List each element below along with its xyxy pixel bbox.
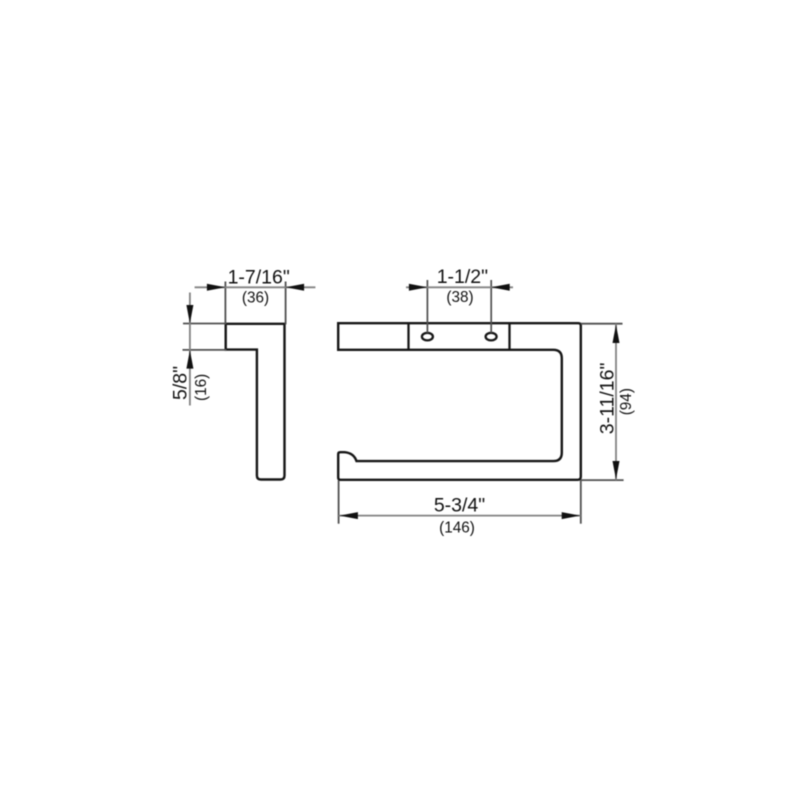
dim D3 arrow left	[409, 284, 428, 291]
svg-text:(146): (146)	[439, 520, 475, 537]
dim D2 arrow up	[186, 350, 193, 369]
dim D5 arrow right	[562, 512, 581, 519]
svg-text:(38): (38)	[446, 289, 473, 306]
right view: screw hole right	[486, 333, 497, 341]
dim D3 ext line right	[490, 280, 492, 333]
dim D1 arrow right	[286, 284, 305, 291]
svg-text:1-1/2": 1-1/2"	[437, 266, 488, 288]
dim D1 ext line right	[285, 282, 287, 325]
dim D4 ext line bottom	[581, 479, 624, 481]
right view: mounting plate divider right	[508, 323, 510, 350]
dim D5 ext line right	[580, 481, 582, 524]
svg-text:1-7/16": 1-7/16"	[228, 267, 290, 289]
dim D4 arrow down	[613, 461, 620, 480]
svg-text:(16): (16)	[193, 374, 210, 401]
svg-text:5/8": 5/8"	[169, 366, 191, 400]
svg-text:5-3/4": 5-3/4"	[434, 495, 485, 517]
dim D1 arrow left	[207, 284, 226, 291]
dim D2 line	[189, 293, 191, 406]
dim D3 ext line left	[426, 280, 428, 333]
dim D1 line	[195, 286, 316, 288]
right view: front outline with inner cutout and lip	[338, 323, 581, 480]
dim D4 arrow up	[613, 325, 620, 344]
dim D2 arrow down	[186, 305, 193, 324]
dim D2 ext line top	[183, 323, 227, 325]
svg-text:(94): (94)	[618, 388, 635, 415]
dim D3 arrow right	[491, 284, 510, 291]
dim D5 arrow left	[339, 512, 358, 519]
right view: screw hole left	[422, 333, 433, 341]
dim D4 ext line top	[581, 323, 623, 325]
dim D1 ext line left	[224, 282, 226, 324]
svg-text:(36): (36)	[242, 290, 269, 307]
dim D5 ext line left	[338, 481, 340, 524]
dim D5 line	[339, 515, 581, 517]
dim D4 line	[615, 324, 617, 480]
svg-text:3-11/16": 3-11/16"	[596, 363, 618, 435]
dim D2 ext line bottom	[183, 349, 227, 351]
dim D3 line	[406, 286, 513, 288]
right view: mounting plate divider left	[407, 323, 409, 350]
left view: side profile outline	[226, 324, 285, 480]
